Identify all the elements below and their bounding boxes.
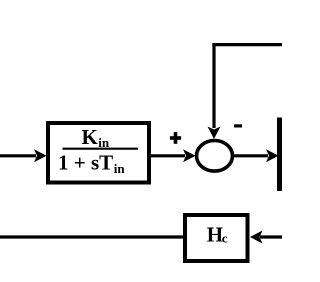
svg-text:1 + sT: 1 + sT [58,150,113,174]
wire: input line into K_in block [0,149,47,162]
wire: H_c block output to left edge [0,235,184,238]
summing junction S1 [197,141,233,172]
block U1: K_in/(1+sT_in) transfer function [48,123,149,183]
wire: top feedback vertical segment into summing junction [208,43,221,139]
label: plus sign at summing junction [170,132,181,144]
svg-text:in: in [114,161,126,176]
block U2: cut-off block at right edge [277,118,282,192]
wire: K_in block output to summing junction [151,149,196,162]
wire: summing junction output to right block [232,149,279,162]
svg-text:K: K [82,125,99,149]
wire: top feedback horizontal segment [212,43,282,46]
svg-text:H: H [207,223,223,247]
wire: right edge into H_c block [250,231,282,244]
svg-text:c: c [222,232,228,246]
block U3: H_c feedback block [185,215,248,261]
label: minus sign at summing junction [234,124,242,127]
